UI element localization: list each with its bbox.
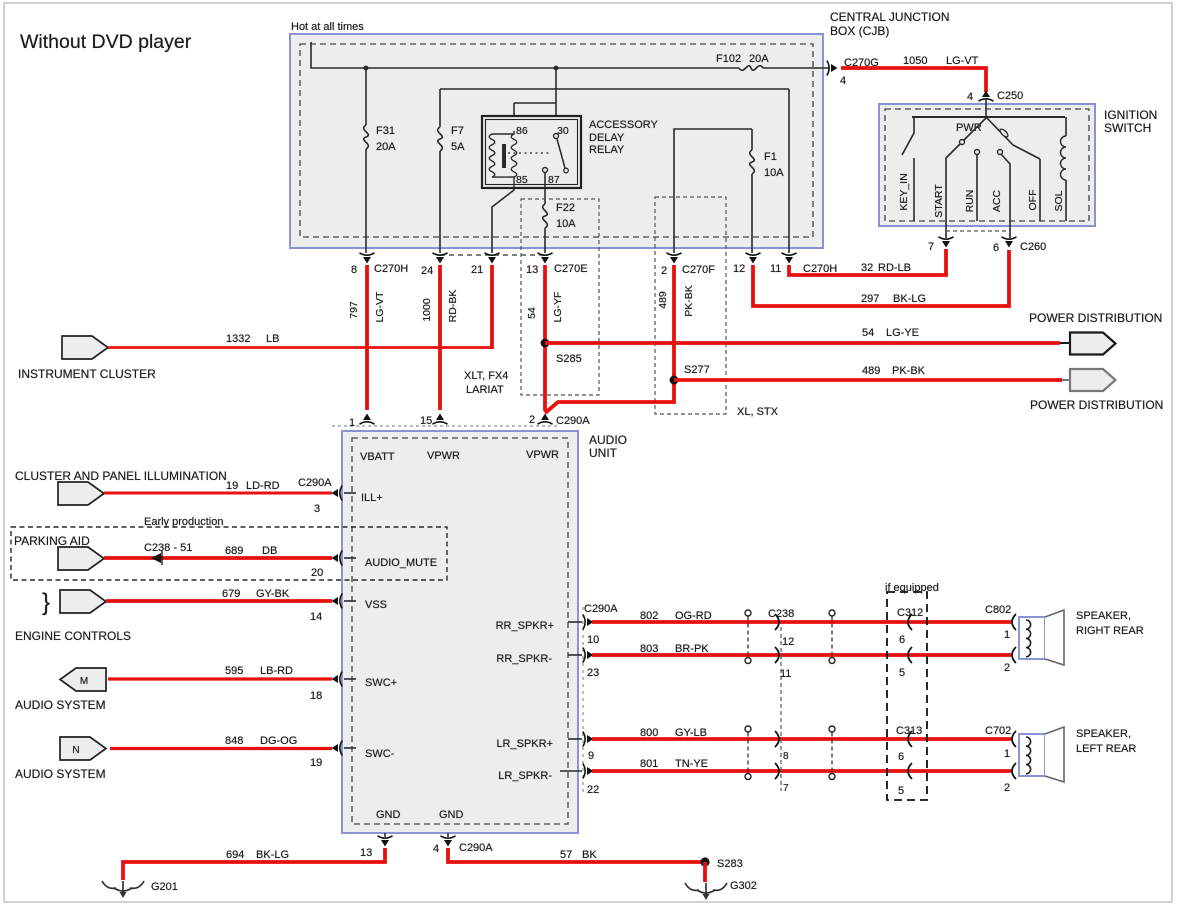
wire 57 BK red to S283	[448, 848, 705, 862]
inline connector C238 - 51 arrow	[151, 553, 161, 563]
svg-text:PARKING AID: PARKING AID	[14, 534, 90, 548]
svg-text:19: 19	[226, 480, 238, 492]
connector pin 1 VBATT	[360, 414, 375, 425]
svg-text:POWER DISTRIBUTION: POWER DISTRIBUTION	[1030, 398, 1163, 412]
svg-text:AUDIO SYSTEM: AUDIO SYSTEM	[15, 698, 106, 712]
svg-text:2: 2	[1004, 662, 1010, 674]
svg-text:RUN: RUN	[964, 190, 976, 213]
svg-text:S285: S285	[556, 353, 582, 365]
wire bus3	[674, 129, 752, 253]
svg-text:C290A: C290A	[556, 415, 590, 427]
connector pin 20 AUDIO_MUTE	[332, 551, 343, 566]
svg-text:C250: C250	[997, 90, 1023, 102]
switch START contact	[964, 118, 986, 140]
svg-text:4: 4	[967, 91, 973, 103]
svg-text:RD-BK: RD-BK	[447, 290, 459, 323]
connector instrument cluster	[62, 336, 108, 359]
svg-text:5: 5	[898, 785, 904, 797]
svg-text:489: 489	[657, 291, 669, 309]
svg-text:PK-BK: PK-BK	[683, 285, 695, 317]
svg-text:7: 7	[928, 241, 934, 253]
connector C290A dashed link top	[332, 425, 560, 427]
connector C260 dashed link	[946, 230, 1010, 232]
svg-text:DB: DB	[262, 545, 277, 557]
svg-text:LARIAT: LARIAT	[466, 384, 504, 396]
svg-text:1000: 1000	[421, 298, 433, 322]
svg-text:489: 489	[862, 365, 880, 377]
dashed box XLT FX4 LARIAT	[521, 199, 599, 395]
svg-text:8: 8	[783, 751, 789, 762]
svg-text:797: 797	[348, 301, 360, 319]
relay core bar	[502, 144, 506, 168]
switch KEY_IN blade	[902, 117, 914, 155]
dashed box early production	[11, 527, 447, 580]
svg-text:DG-OG: DG-OG	[260, 735, 297, 747]
wire 19 LD-RD red ILL+	[104, 492, 332, 495]
wire 689 DB red AUDIO_MUTE	[104, 556, 332, 560]
svg-text:SOL: SOL	[1053, 190, 1065, 211]
svg-text:LR_SPKR+: LR_SPKR+	[496, 738, 553, 750]
svg-text:LG-YF: LG-YF	[552, 292, 564, 323]
svg-text:20A: 20A	[749, 53, 769, 65]
ground G201	[102, 881, 144, 898]
switch SOL coil	[1065, 117, 1067, 136]
svg-text:32: 32	[861, 262, 873, 274]
svg-text:7: 7	[783, 783, 789, 794]
svg-text:LR_SPKR-: LR_SPKR-	[498, 770, 552, 782]
svg-text:12: 12	[733, 263, 745, 275]
svg-text:54: 54	[862, 327, 874, 339]
svg-text:INSTRUMENT CLUSTER: INSTRUMENT CLUSTER	[18, 367, 156, 381]
svg-text:AUDIO_MUTE: AUDIO_MUTE	[365, 557, 437, 569]
wire 54 LG-YE red to power distribution	[545, 341, 1060, 345]
svg-text:UNIT: UNIT	[589, 446, 618, 460]
svg-text:23: 23	[587, 667, 599, 679]
inline connector chain RR a	[745, 610, 751, 664]
wire 801 TN-YE red LR_SPKR-	[592, 769, 1011, 773]
svg-text:OFF: OFF	[1027, 190, 1039, 211]
wire PWR bar	[912, 116, 1065, 118]
wire 595 LB-RD red SWC+	[108, 677, 332, 680]
svg-text:14: 14	[310, 611, 322, 623]
svg-text:1: 1	[349, 417, 355, 429]
svg-text:START: START	[933, 184, 945, 218]
wire 489 PK-BK red pin2 C270F down	[545, 265, 674, 413]
node junction relay tap	[554, 66, 559, 71]
audio unit box	[342, 431, 578, 833]
svg-text:XLT, FX4: XLT, FX4	[464, 370, 508, 382]
svg-text:PK-BK: PK-BK	[892, 365, 926, 377]
svg-text:F1: F1	[764, 151, 777, 163]
wire 32 RD-LB red pin11 to ignition pin7	[789, 249, 946, 275]
svg-text:GND: GND	[376, 809, 401, 821]
svg-text:BK-LG: BK-LG	[256, 849, 289, 861]
CJB inner dashed border	[300, 44, 813, 237]
svg-text:679: 679	[222, 588, 240, 600]
splice S285	[541, 339, 550, 348]
svg-text:C290A: C290A	[459, 842, 493, 854]
svg-text:802: 802	[640, 610, 658, 622]
wire 694 BK-LG red to G201	[123, 848, 385, 880]
svg-text:1332: 1332	[226, 333, 250, 345]
svg-text:SWC+: SWC+	[365, 677, 397, 689]
svg-text:C238 - 51: C238 - 51	[144, 542, 192, 554]
svg-text:CENTRAL JUNCTION: CENTRAL JUNCTION	[830, 10, 950, 24]
connector parking aid	[58, 547, 104, 570]
svg-text:TN-YE: TN-YE	[675, 758, 708, 770]
svg-text:21: 21	[471, 264, 483, 276]
connector pin 22 LR_SPKR-	[560, 770, 582, 772]
wire 800 GY-LB red LR_SPKR+	[592, 737, 1011, 741]
svg-text:10A: 10A	[764, 167, 784, 179]
svg-text:F22: F22	[556, 202, 575, 214]
svg-text:848: 848	[225, 735, 243, 747]
svg-text:18: 18	[310, 690, 322, 702]
svg-text:C702: C702	[985, 725, 1011, 737]
inline connector chain LR b	[829, 726, 835, 780]
svg-text:2: 2	[1004, 782, 1010, 794]
svg-text:AUDIO SYSTEM: AUDIO SYSTEM	[15, 767, 106, 781]
svg-text:ACC: ACC	[991, 189, 1003, 212]
svg-text:C290A: C290A	[584, 603, 618, 615]
switch OFF line	[1039, 159, 1041, 221]
inline connector chain RR b	[829, 610, 835, 664]
wire red pin21 to instrument cluster	[490, 265, 494, 349]
wire 1050 LG-VT red to C250	[841, 68, 986, 92]
svg-text:54: 54	[526, 307, 538, 319]
svg-text:M: M	[80, 676, 88, 687]
connector pin 15 VPWR	[433, 414, 448, 425]
svg-text:POWER DISTRIBUTION: POWER DISTRIBUTION	[1029, 311, 1162, 325]
svg-text:GND: GND	[439, 809, 464, 821]
svg-text:86: 86	[516, 125, 528, 137]
svg-text:C290A: C290A	[298, 477, 332, 489]
svg-text:689: 689	[225, 545, 243, 557]
wire C250 into switch	[985, 99, 987, 117]
svg-text:GY-LB: GY-LB	[675, 727, 707, 739]
svg-text:ACCESSORY: ACCESSORY	[589, 119, 659, 131]
wire red S283 to G302	[703, 862, 707, 882]
fuse F22 10A	[543, 204, 548, 228]
wire 679 GY-BK red VSS	[106, 599, 332, 603]
svg-text:Hot at all times: Hot at all times	[291, 21, 364, 33]
svg-text:11: 11	[770, 263, 781, 275]
svg-text:5: 5	[899, 667, 905, 679]
svg-text:1: 1	[1004, 748, 1010, 760]
svg-text:12: 12	[782, 636, 794, 648]
wire relay 87 to F22	[544, 172, 546, 204]
svg-text:GY-BK: GY-BK	[256, 588, 290, 600]
svg-text:RIGHT REAR: RIGHT REAR	[1076, 625, 1144, 637]
fuse F102 20A	[739, 66, 763, 71]
wire 1332 LB red	[108, 346, 492, 349]
svg-text:VPWR: VPWR	[427, 450, 460, 462]
svg-text:VPWR: VPWR	[526, 449, 559, 461]
svg-text:9: 9	[588, 750, 594, 762]
svg-text:C260: C260	[1020, 241, 1046, 253]
wire 802 OG-RD red RR_SPKR+	[592, 620, 1011, 624]
svg-text:20A: 20A	[376, 141, 396, 153]
ignition switch box	[879, 104, 1095, 226]
wire 848 DG-OG red SWC-	[110, 747, 332, 750]
connector pin 23 RR_SPKR-	[568, 654, 582, 656]
svg-text:SPEAKER,: SPEAKER,	[1076, 728, 1131, 740]
svg-text:LB-RD: LB-RD	[260, 665, 293, 677]
connector pin 4 C250	[979, 91, 994, 102]
svg-text:DELAY: DELAY	[589, 132, 625, 144]
wire 489 PK-BK red to power distribution	[674, 378, 1062, 382]
svg-text:595: 595	[225, 665, 243, 677]
svg-text:4: 4	[433, 843, 439, 855]
switch ACC contact	[998, 150, 1003, 155]
speaker left rear	[1019, 734, 1045, 776]
wire relay feed	[555, 68, 557, 133]
switch RUN contact	[975, 150, 980, 155]
wire 54 LG-YF red pin13 to S285	[543, 265, 547, 411]
connector pin 2 C290A VPWR	[538, 414, 553, 425]
svg-text:N: N	[72, 745, 79, 756]
connector cluster and panel illumination	[58, 482, 104, 505]
connector pin 8 C270H	[360, 253, 375, 264]
connector pin C270G	[827, 61, 838, 76]
connector pin 7	[939, 237, 954, 248]
ground G302	[685, 883, 727, 900]
connector pin 19 SWC-	[332, 741, 343, 756]
svg-text:LD-RD: LD-RD	[246, 480, 280, 492]
svg-text:11: 11	[780, 668, 791, 680]
svg-text:297: 297	[861, 293, 879, 305]
svg-text:13: 13	[360, 847, 372, 859]
svg-text:3: 3	[314, 503, 320, 515]
svg-text:ENGINE CONTROLS: ENGINE CONTROLS	[15, 629, 131, 643]
relay contact 87	[543, 168, 548, 173]
wire 803 BR-PK red RR_SPKR-	[592, 653, 1011, 657]
svg-text:IGNITION: IGNITION	[1104, 108, 1157, 122]
splice S277	[670, 376, 679, 385]
svg-text:LG-VT: LG-VT	[946, 55, 979, 67]
svg-text:694: 694	[226, 849, 244, 861]
svg-text:87: 87	[548, 174, 560, 186]
svg-text:CLUSTER AND PANEL ILLUMINATION: CLUSTER AND PANEL ILLUMINATION	[15, 469, 227, 483]
svg-text:RR_SPKR-: RR_SPKR-	[496, 653, 552, 665]
svg-text:XL, STX: XL, STX	[737, 406, 779, 418]
svg-text:G201: G201	[151, 881, 178, 893]
power distribution arrow 1	[1060, 342, 1070, 344]
svg-text:G302: G302	[730, 880, 757, 892]
wire 797 LG-VT red pin8 to VBATT	[365, 265, 369, 410]
wire relay 85 to pin 21	[492, 188, 514, 253]
svg-text:85: 85	[516, 174, 528, 186]
svg-text:F7: F7	[451, 125, 464, 137]
relay coil	[489, 131, 514, 188]
svg-text:4: 4	[840, 75, 846, 87]
central junction box CJB	[290, 34, 823, 248]
node junction F31 tap	[364, 66, 369, 71]
connector pin 18 SWC+	[332, 672, 343, 687]
svg-text:S283: S283	[717, 858, 743, 870]
connector C238 arcs and pins	[775, 614, 779, 630]
wire 1000 RD-BK red pin24 to VPWR	[438, 265, 442, 410]
inline connector chain LR a	[745, 726, 751, 780]
svg-text:C238: C238	[768, 608, 794, 620]
svg-text:LG-VT: LG-VT	[374, 291, 386, 323]
svg-text:SPEAKER,: SPEAKER,	[1076, 610, 1131, 622]
svg-text:C270H: C270H	[374, 263, 408, 275]
connector pin 24	[433, 253, 448, 264]
svg-text:BK-LG: BK-LG	[893, 293, 926, 305]
svg-text:22: 22	[587, 784, 599, 796]
speaker right rear	[1019, 617, 1045, 659]
svg-text:5A: 5A	[451, 141, 465, 153]
connector pin 6 C260	[1002, 237, 1017, 248]
svg-text:13: 13	[526, 264, 538, 276]
connector pin 3 ILL+	[332, 486, 343, 501]
svg-text:KEY_IN: KEY_IN	[898, 173, 910, 210]
switch wiper arm	[986, 117, 1040, 159]
connector pin 10 RR_SPKR+	[568, 621, 582, 623]
connector pin 11 C270H	[782, 253, 797, 264]
relay dotted link	[508, 152, 552, 154]
svg-text:RR_SPKR+: RR_SPKR+	[496, 620, 554, 632]
connector pin 13 C270E	[538, 253, 553, 264]
svg-text:LG-YE: LG-YE	[886, 327, 919, 339]
svg-text:AUDIO: AUDIO	[589, 433, 627, 447]
svg-text:57: 57	[560, 849, 572, 861]
connector pin 14 VSS	[332, 594, 343, 609]
splice S283	[700, 857, 709, 866]
wire bus1 hot feed	[311, 42, 739, 68]
svg-text:VBATT: VBATT	[360, 451, 395, 463]
svg-text:C270F: C270F	[682, 264, 715, 276]
connector pin 4 C290A GND	[447, 833, 449, 837]
fuse F31 20A	[365, 68, 367, 125]
relay switch arm	[557, 139, 565, 168]
svg-text:Without DVD player: Without DVD player	[20, 31, 192, 53]
power distribution arrow 2	[1062, 379, 1070, 381]
svg-text:S277: S277	[684, 364, 710, 376]
svg-text:C270E: C270E	[554, 263, 588, 275]
svg-text:19: 19	[310, 757, 322, 769]
svg-text:24: 24	[421, 265, 433, 277]
svg-text:BOX (CJB): BOX (CJB)	[830, 24, 889, 38]
wire bus2	[440, 88, 789, 90]
svg-text:BR-PK: BR-PK	[675, 643, 709, 655]
svg-text:803: 803	[640, 643, 658, 655]
svg-text:OG-RD: OG-RD	[675, 610, 712, 622]
svg-text:SWC-: SWC-	[365, 748, 395, 760]
svg-text:801: 801	[640, 758, 658, 770]
svg-text:1: 1	[1004, 629, 1010, 641]
svg-text:6: 6	[993, 242, 999, 254]
svg-text:F31: F31	[376, 125, 395, 137]
svg-text:RELAY: RELAY	[589, 144, 625, 156]
connector pin 13 GND	[384, 833, 386, 837]
svg-text:VSS: VSS	[365, 599, 387, 611]
wire bus2 drop to pin 11	[788, 89, 790, 253]
connector audio system N	[60, 737, 106, 760]
connector pin 12	[746, 253, 761, 264]
svg-text:20: 20	[311, 567, 323, 579]
relay accessory delay relay box	[482, 116, 581, 188]
connector C270H dashed link	[440, 254, 545, 256]
connector C290A dashed link right	[582, 607, 584, 795]
svg-text:10A: 10A	[556, 218, 576, 230]
svg-text:Early production: Early production	[144, 516, 224, 528]
svg-text:ILL+: ILL+	[361, 492, 383, 504]
svg-text:LB: LB	[266, 333, 279, 345]
svg-text:1050: 1050	[903, 55, 927, 67]
svg-text:RD-LB: RD-LB	[878, 262, 911, 274]
svg-text:PWR: PWR	[956, 122, 982, 134]
svg-text:6: 6	[899, 634, 905, 646]
svg-text:C802: C802	[985, 604, 1011, 616]
connector audio system M	[60, 668, 106, 691]
connector pin 9 LR_SPKR+	[568, 738, 582, 740]
svg-text:800: 800	[640, 727, 658, 739]
svg-text:2: 2	[529, 414, 535, 426]
fuse F7 5A	[439, 89, 441, 127]
connector pin 21	[485, 253, 500, 264]
relay contact 30	[554, 134, 559, 139]
svg-text:6: 6	[898, 751, 904, 763]
svg-text:8: 8	[351, 264, 357, 276]
connector pin 2 C270F	[667, 253, 682, 264]
svg-text:2: 2	[661, 265, 667, 277]
wire bus1 to C270G	[763, 67, 829, 69]
wire 297 BK-LG red pin12 to ignition pin6	[753, 250, 1009, 306]
svg-text:15: 15	[420, 415, 432, 427]
svg-text:F102: F102	[716, 53, 741, 65]
svg-text:10: 10	[587, 634, 599, 646]
dashed box XL STX	[655, 197, 726, 414]
svg-text:LEFT REAR: LEFT REAR	[1076, 743, 1136, 755]
svg-text:}: }	[42, 589, 50, 616]
fuse F1 10A	[751, 129, 753, 150]
connector C238 dashed line	[780, 627, 782, 791]
svg-text:SWITCH: SWITCH	[1104, 121, 1151, 135]
svg-text:BK: BK	[582, 849, 597, 861]
